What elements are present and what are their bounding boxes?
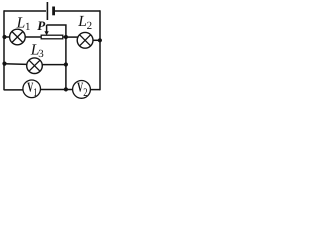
svg-text:P: P xyxy=(37,18,46,33)
svg-text:V: V xyxy=(27,79,33,94)
node F junction column bottom xyxy=(64,87,68,91)
svg-text:1: 1 xyxy=(33,87,38,99)
svg-text:2: 2 xyxy=(87,20,93,32)
node D junction left wire row3 xyxy=(2,62,6,66)
svg-text:3: 3 xyxy=(38,48,44,60)
battery short thick plate (-) xyxy=(52,7,55,16)
svg-text:2: 2 xyxy=(83,87,88,99)
node B junction column row2 xyxy=(64,35,68,39)
voltmeter V1 xyxy=(23,80,41,98)
wire L3 to node E xyxy=(43,64,67,66)
wire top left segment xyxy=(4,10,46,12)
wire top right segment xyxy=(55,10,100,12)
battery long plate (+) xyxy=(46,2,48,20)
wire node B to L2 xyxy=(66,36,78,38)
rheostat P resistor box xyxy=(41,35,63,39)
svg-text:L: L xyxy=(77,13,87,30)
node A junction left wire row2 xyxy=(2,35,6,39)
wire L2 to right wire xyxy=(93,39,100,41)
wire L1 to rheostat xyxy=(26,36,41,38)
lamp L2 xyxy=(77,32,93,48)
wire V2 to bottom right xyxy=(90,89,100,91)
rheostat wiper wire xyxy=(47,25,66,37)
wire right vertical xyxy=(99,10,101,90)
lamp L3 xyxy=(27,58,43,74)
node C junction right wire xyxy=(98,38,102,42)
wire left vertical xyxy=(3,10,5,90)
wire bottom left to V1 xyxy=(4,89,23,91)
lamp L1 xyxy=(10,29,26,45)
wire V1 to node F xyxy=(41,89,73,91)
node E junction column row3 xyxy=(64,62,68,66)
wire column node B to node F xyxy=(65,37,67,90)
wire box to node B xyxy=(63,36,66,38)
voltmeter V2 xyxy=(73,81,91,99)
rheostat wiper arrow xyxy=(46,25,48,32)
svg-text:1: 1 xyxy=(25,21,31,33)
wire left to L1 xyxy=(4,36,10,38)
svg-text:V: V xyxy=(77,80,83,95)
wire left to L3 xyxy=(4,63,27,66)
